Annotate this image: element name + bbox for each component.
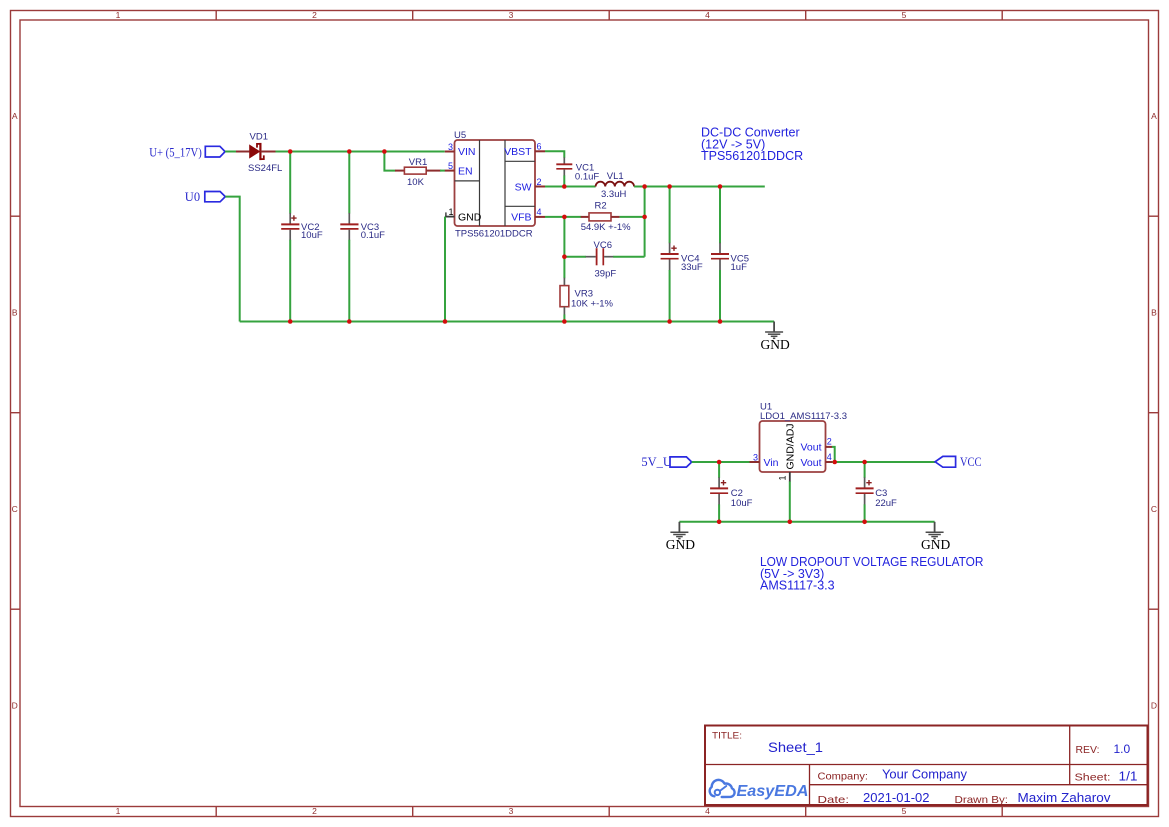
svg-text:1/1: 1/1: [1119, 769, 1138, 784]
svg-text:1.0: 1.0: [1114, 742, 1131, 756]
svg-text:4: 4: [705, 806, 710, 816]
wire VR3 to bottom rail: [563, 315, 565, 322]
net flag 5V_U: [641, 455, 691, 469]
svg-text:D: D: [12, 701, 18, 711]
svg-text:2: 2: [312, 806, 317, 816]
svg-text:U+ (5_17V): U+ (5_17V): [149, 145, 202, 159]
svg-text:Vout: Vout: [800, 457, 821, 469]
node Vout join: [832, 460, 837, 465]
inductor VL1 3.3uH: [596, 171, 634, 200]
wire U0 to bottom rail: [225, 197, 239, 322]
svg-text:1uF: 1uF: [731, 262, 748, 273]
svg-text:39pF: 39pF: [595, 269, 617, 280]
node SW/VC1: [562, 184, 567, 189]
wire VR1 to EN pin: [440, 170, 445, 172]
svg-text:AMS1117-3.3: AMS1117-3.3: [760, 579, 835, 593]
svg-text:2: 2: [827, 437, 832, 447]
svg-text:GND: GND: [761, 337, 790, 352]
wire VIN rail: [276, 151, 445, 153]
svg-text:Your Company: Your Company: [882, 767, 967, 782]
svg-text:D: D: [1151, 701, 1157, 711]
wire node column SW to VC6 right: [644, 187, 646, 257]
node rail C3: [862, 520, 867, 525]
svg-text:VC6: VC6: [594, 240, 612, 251]
annotation LDO: [760, 555, 984, 592]
regulator U1 LDO1_AMS1117-3.3 body: [760, 402, 848, 472]
node out/C3: [862, 460, 867, 465]
svg-text:10uF: 10uF: [301, 230, 323, 241]
pin 3 Vin: [750, 452, 779, 469]
svg-text:VBST: VBST: [504, 146, 532, 158]
pin 6 VBST: [504, 142, 545, 158]
pin 4 Vout: [800, 452, 832, 469]
svg-text:1: 1: [116, 806, 121, 816]
svg-text:33uF: 33uF: [681, 262, 703, 273]
svg-text:5: 5: [448, 161, 453, 171]
node rail VR3: [562, 319, 567, 324]
op-amp U5 TPS561201DDCR body: [454, 130, 535, 239]
svg-text:1: 1: [778, 475, 788, 480]
node SW/VC5: [718, 184, 723, 189]
wire pin2 jog to output node: [832, 447, 835, 462]
svg-text:A: A: [12, 111, 18, 121]
svg-text:Drawn By:: Drawn By:: [955, 794, 1009, 806]
svg-text:0.1uF: 0.1uF: [575, 172, 599, 183]
pin 5 EN: [445, 161, 473, 178]
net flag VCC: [935, 455, 981, 469]
svg-text:Maxim Zaharov: Maxim Zaharov: [1018, 790, 1112, 805]
svg-text:10K: 10K: [407, 177, 425, 188]
svg-text:5: 5: [902, 10, 907, 20]
wire pin1 GND to bottom rail: [444, 217, 446, 322]
svg-text:10K +-1%: 10K +-1%: [571, 299, 614, 310]
svg-text:4: 4: [827, 452, 832, 462]
node rail VC5: [718, 319, 723, 324]
node rail VC3: [347, 319, 352, 324]
svg-text:10uF: 10uF: [731, 498, 753, 509]
wire 5V_U to Vin: [692, 461, 750, 463]
svg-text:3: 3: [753, 452, 758, 462]
title block: [705, 726, 1148, 806]
resistor R2 54.9K: [581, 201, 631, 233]
svg-text:U5: U5: [454, 130, 466, 141]
svg-text:0.1uF: 0.1uF: [361, 230, 385, 241]
wire VFB down column: [563, 217, 565, 257]
svg-text:2: 2: [537, 177, 542, 187]
svg-text:C: C: [12, 504, 18, 514]
svg-text:GND: GND: [921, 537, 950, 552]
svg-text:SS24FL: SS24FL: [248, 163, 282, 174]
node rail pin1: [788, 520, 793, 525]
svg-text:4: 4: [705, 10, 710, 20]
pin 4 VFB: [511, 207, 545, 224]
svg-text:4: 4: [537, 207, 542, 217]
svg-text:TPS561201DDCR: TPS561201DDCR: [455, 228, 533, 239]
svg-text:C: C: [1151, 504, 1157, 514]
wire VBST to VC1: [545, 151, 564, 158]
node VFB left: [562, 215, 567, 220]
annotation DC-DC Converter: [701, 126, 803, 163]
node VFB right: [642, 215, 647, 220]
svg-text:54.9K +-1%: 54.9K +-1%: [581, 222, 631, 233]
EasyEDA logo: [710, 780, 735, 797]
svg-text:Sheet:: Sheet:: [1075, 772, 1111, 784]
svg-text:GND: GND: [666, 537, 695, 552]
svg-text:2: 2: [312, 10, 317, 20]
wire EN branch: [384, 152, 395, 171]
svg-text:5V_U: 5V_U: [641, 455, 672, 469]
node rail C2: [717, 520, 722, 525]
svg-text:6: 6: [537, 142, 542, 152]
pin 3 VIN: [445, 142, 476, 158]
svg-text:5: 5: [902, 806, 907, 816]
node rail U5 GND: [443, 319, 448, 324]
node VC6 left: [562, 254, 567, 259]
junction dots lower: [717, 460, 867, 524]
svg-text:VCC: VCC: [960, 455, 982, 469]
junction dots upper: [288, 149, 722, 324]
svg-text:A: A: [1151, 111, 1157, 121]
node rail VC2: [288, 319, 293, 324]
svg-text:Sheet_1: Sheet_1: [768, 739, 823, 755]
wire SW to inductor: [545, 186, 596, 188]
ground GND lower right: [921, 522, 950, 552]
svg-text:TITLE:: TITLE:: [712, 731, 742, 742]
svg-text:GND: GND: [458, 212, 482, 224]
node VIN/VC2: [288, 149, 293, 154]
wire lower ground rail: [679, 521, 934, 523]
svg-text:U0: U0: [185, 190, 200, 204]
svg-text:1: 1: [448, 207, 453, 217]
pin 2 Vout: [800, 437, 832, 454]
wire SW rail right: [634, 186, 765, 188]
node Vin/C2: [717, 460, 722, 465]
svg-text:3: 3: [509, 10, 514, 20]
capacitor VC1 0.1uF: [556, 157, 599, 182]
pin 1 GND: [445, 207, 482, 223]
net flag U+ (5_17V): [149, 145, 225, 159]
wire VC1 to SW rail: [563, 175, 565, 186]
ground GND lower left: [666, 522, 695, 552]
svg-text:LDO1_AMS1117-3.3: LDO1_AMS1117-3.3: [760, 411, 847, 422]
capacitor C2 10uF: [710, 462, 753, 522]
net flag U0: [185, 190, 226, 204]
svg-text:VR1: VR1: [409, 157, 427, 168]
svg-text:TPS561201DDCR: TPS561201DDCR: [701, 149, 803, 163]
pin 2 SW: [515, 177, 545, 194]
resistor VR1 10K: [395, 157, 441, 188]
resistor VR3 10K: [560, 278, 614, 315]
wire output to VCC: [832, 461, 935, 463]
svg-text:VIN: VIN: [458, 146, 476, 158]
pin 1 GND/ADJ stub: [778, 472, 790, 482]
node SW/VC4: [667, 184, 672, 189]
svg-text:3: 3: [448, 142, 453, 152]
svg-text:EN: EN: [458, 165, 473, 177]
wire pin1 down to rail: [789, 481, 791, 521]
capacitor VC6 39pF: [564, 240, 644, 279]
capacitor C3 22uF: [856, 462, 897, 522]
svg-text:Vout: Vout: [800, 442, 821, 454]
svg-text:1: 1: [116, 10, 121, 20]
svg-text:REV:: REV:: [1076, 744, 1100, 756]
svg-text:Date:: Date:: [818, 794, 850, 806]
wire VC6 node down to VR3: [563, 257, 565, 279]
svg-text:2021-01-02: 2021-01-02: [863, 790, 930, 805]
diode VD1 SS24FL: [236, 132, 282, 175]
svg-text:B: B: [12, 308, 18, 318]
wire bottom ground rail: [240, 321, 774, 323]
svg-text:22uF: 22uF: [875, 498, 897, 509]
svg-text:SW: SW: [515, 181, 532, 193]
wire U+ flag to VD1 anode: [225, 151, 237, 153]
svg-text:B: B: [1151, 308, 1157, 318]
node SW/R2 column: [642, 184, 647, 189]
svg-text:R2: R2: [595, 201, 607, 212]
node rail VC4: [667, 319, 672, 324]
capacitor VC4 33uF: [661, 187, 703, 322]
svg-text:3: 3: [509, 806, 514, 816]
wire R2 to node: [620, 216, 645, 218]
svg-text:VD1: VD1: [250, 132, 268, 143]
capacitor VC2 10uF: [281, 152, 323, 322]
svg-text:Vin: Vin: [764, 457, 779, 469]
wire VFB rail: [545, 216, 581, 218]
capacitor VC3 0.1uF: [340, 152, 385, 322]
node VIN/EN branch: [382, 149, 387, 154]
ground GND upper: [761, 322, 790, 353]
svg-text:GND/ADJ: GND/ADJ: [785, 423, 797, 469]
capacitor VC5 1uF: [711, 187, 749, 322]
svg-text:VFB: VFB: [511, 212, 531, 224]
svg-text:EasyEDA: EasyEDA: [737, 783, 809, 800]
node VIN/VC3: [347, 149, 352, 154]
svg-text:3.3uH: 3.3uH: [601, 189, 626, 200]
svg-text:Company:: Company:: [818, 771, 869, 783]
svg-text:VL1: VL1: [607, 171, 624, 182]
